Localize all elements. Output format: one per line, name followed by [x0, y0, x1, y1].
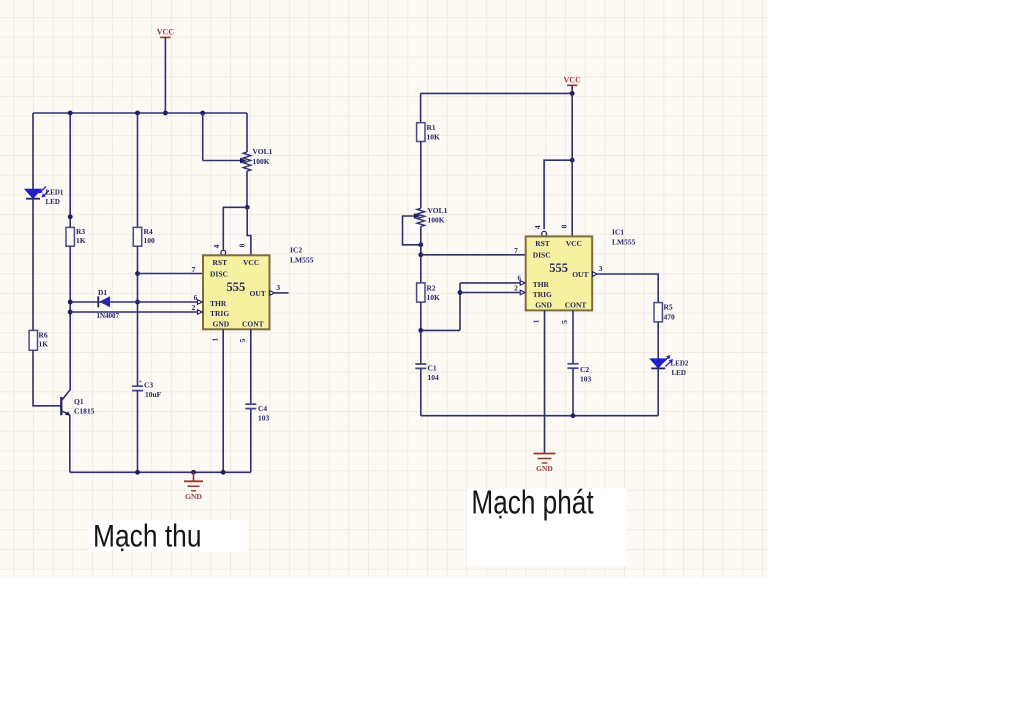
node junction TRIG tee 2 [458, 290, 463, 295]
svg-text:OUT: OUT [572, 270, 588, 279]
wire LED2 to bottom rail corner [657, 368, 659, 416]
wire TRIG/THR riser [459, 283, 461, 331]
capacitor C3 [132, 385, 143, 387]
node junction DISC tee 2 [418, 252, 423, 257]
svg-text:GND: GND [536, 464, 553, 473]
svg-text:10K: 10K [427, 293, 441, 302]
transistor Q1 emitter with arrow [61, 411, 70, 415]
wire C4 to bottom rail corner [250, 409, 252, 473]
pin 6 THR input arrow [198, 300, 203, 305]
LED D LED2 (emitter) [650, 359, 666, 368]
wire TRIG line [70, 311, 197, 313]
pin 2 TRIG input arrow [198, 310, 203, 315]
resistor R4 [133, 227, 141, 246]
wire TRIG line 2 [460, 292, 520, 294]
pin 3 OUT wire IC1 [598, 274, 659, 303]
svg-text:Mạch thu: Mạch thu [93, 518, 202, 554]
wire left branch down to LED1 [32, 113, 34, 189]
wire THR line through D1 [70, 301, 197, 303]
svg-text:LED1: LED1 [46, 189, 64, 197]
pin 3 OUT arrow [270, 291, 275, 296]
node junction DISC tee [135, 271, 140, 276]
wire node to pin 8 [247, 207, 251, 255]
svg-text:VOL1: VOL1 [428, 206, 448, 215]
wire Q1 emitter down to bottom rail [69, 415, 71, 472]
wire VCC stub to top rail [164, 37, 166, 113]
resistor R2 [417, 283, 425, 302]
svg-text:103: 103 [580, 375, 592, 384]
svg-text:VCC: VCC [566, 239, 582, 248]
ground symbol GND (circuit 1) [184, 480, 203, 482]
wire top rail circuit 2 [421, 92, 573, 94]
wire R3 branch from rail [69, 113, 71, 227]
node junction top rail at VCC stub [163, 111, 168, 116]
pin 3 OUT wire [275, 292, 289, 294]
wire C1 to bottom rail 2 [420, 368, 422, 415]
pin 5 CONT wire to C4 [250, 329, 252, 404]
node junction THR tee [135, 300, 140, 305]
svg-text:VCC: VCC [157, 28, 175, 37]
svg-text:C3: C3 [144, 381, 153, 390]
wire GND stub [193, 472, 195, 481]
wire C1 branch [420, 330, 422, 364]
node junction THR line [68, 300, 73, 305]
diode D1 1N4007 [99, 296, 110, 307]
svg-text:R4: R4 [144, 227, 153, 236]
svg-text:470: 470 [664, 313, 676, 322]
svg-text:8: 8 [237, 243, 246, 247]
wire VOL1 bottom to node [246, 171, 248, 207]
svg-text:555: 555 [227, 280, 246, 294]
svg-text:VCC: VCC [564, 76, 582, 85]
node junction wiper return [418, 242, 423, 247]
svg-text:C4: C4 [258, 404, 267, 413]
wire C2 to bottom rail [572, 368, 574, 416]
wire VCC stub 2 [571, 85, 573, 93]
wire top rail circuit 1 [33, 112, 247, 114]
svg-text:3: 3 [276, 283, 280, 292]
svg-text:Mạch phát: Mạch phát [471, 484, 593, 521]
wire R6 to base corner [33, 350, 61, 406]
svg-text:TRIG: TRIG [533, 290, 552, 299]
svg-text:8: 8 [560, 224, 569, 228]
svg-text:5: 5 [560, 320, 569, 324]
node junction top rail at R3 column [68, 111, 73, 116]
svg-text:1: 1 [532, 319, 541, 323]
svg-text:3: 3 [599, 264, 603, 273]
wire R1 to VOL1b [420, 142, 422, 209]
node junction bottom rail at C3 [135, 470, 140, 475]
node junction bottom rail at GND [191, 470, 196, 475]
resistor R3 [66, 227, 74, 246]
pin 6 THR arrow IC1 [520, 281, 525, 286]
svg-text:R5: R5 [664, 303, 673, 312]
svg-text:103: 103 [258, 414, 270, 423]
svg-text:C1: C1 [428, 364, 437, 373]
svg-text:IC2: IC2 [290, 246, 302, 255]
svg-text:4: 4 [533, 225, 542, 229]
svg-text:DISC: DISC [533, 250, 551, 259]
potentiometer VOL1 (circuit 2) zigzag [417, 208, 425, 226]
svg-text:2: 2 [192, 303, 196, 312]
node junction VCC column pin4 tee [570, 158, 575, 163]
pin 1 GND wire IC1 [544, 310, 546, 453]
wire R3 to Q1 collector [69, 246, 71, 389]
pin 5 CONT wire IC1 [572, 310, 574, 363]
svg-text:1N4007: 1N4007 [97, 312, 120, 320]
svg-text:R2: R2 [427, 284, 436, 293]
svg-text:10K: 10K [427, 133, 441, 142]
resistor R1 [417, 123, 425, 142]
wire wiper column down [202, 113, 204, 161]
svg-text:TRIG: TRIG [210, 309, 229, 318]
wire R4 to capacitor C3 [137, 246, 139, 386]
wire TRIG return horizontal [421, 329, 460, 331]
svg-text:VOL1: VOL1 [253, 147, 273, 156]
wire wiper horizontal to VOL1 [203, 160, 241, 162]
wire bottom rail circuit 1 [70, 471, 251, 473]
resistor R6 [29, 330, 37, 350]
svg-text:LED2: LED2 [671, 360, 689, 368]
label white box Mach phat [467, 489, 627, 567]
svg-text:7: 7 [192, 265, 196, 274]
svg-text:+: + [139, 380, 143, 386]
wire node to pin 4 bubble [223, 207, 247, 250]
svg-text:6: 6 [518, 275, 522, 283]
svg-text:CONT: CONT [565, 300, 587, 309]
svg-text:Q1: Q1 [74, 397, 84, 406]
svg-text:R1: R1 [427, 123, 436, 132]
svg-text:100: 100 [144, 236, 156, 245]
wire R4 branch from rail [137, 113, 139, 227]
wire VOL1b to R2 [420, 227, 422, 283]
svg-text:4: 4 [212, 244, 221, 248]
svg-text:R3: R3 [76, 227, 85, 236]
svg-text:C2: C2 [580, 365, 589, 374]
svg-text:555: 555 [549, 261, 568, 275]
svg-text:7: 7 [514, 246, 518, 255]
ground symbol GND (circuit 2) [534, 453, 556, 455]
op-amp U1 IC2 555 body [203, 255, 270, 329]
LED2 emitted light arrows [663, 358, 668, 363]
pin 3 OUT arrow IC1 [593, 272, 598, 277]
svg-text:C1815: C1815 [74, 407, 95, 416]
svg-text:GND: GND [213, 319, 230, 328]
wire LED1 to R6 [32, 198, 34, 330]
wire R2 to bottom node [420, 302, 422, 330]
svg-text:GND: GND [185, 492, 202, 501]
svg-text:THR: THR [210, 299, 227, 308]
svg-text:D1: D1 [98, 288, 107, 297]
svg-text:RST: RST [535, 239, 550, 248]
svg-text:IC1: IC1 [612, 228, 624, 237]
wire DISC line [138, 273, 204, 275]
wire R5 to LED2 [657, 322, 659, 359]
svg-text:OUT: OUT [250, 289, 266, 298]
svg-text:5: 5 [238, 338, 247, 342]
svg-text:LM555: LM555 [612, 238, 636, 247]
svg-text:VCC: VCC [243, 258, 259, 267]
svg-text:104: 104 [428, 373, 440, 382]
capacitor C4 [245, 403, 256, 405]
wire rail to R1 [420, 93, 422, 122]
svg-text:LM555: LM555 [290, 256, 314, 265]
potentiometer VOL1b wiper arrow [414, 213, 421, 218]
svg-text:2: 2 [514, 284, 518, 293]
svg-text:THR: THR [533, 280, 550, 289]
resistor R5 [654, 303, 662, 322]
svg-text:LED: LED [46, 198, 60, 206]
svg-text:100K: 100K [428, 216, 445, 225]
svg-text:100K: 100K [253, 157, 270, 166]
svg-text:LED: LED [672, 369, 686, 377]
node junction pin4/pin8 split [245, 205, 250, 210]
node junction above R3 [68, 214, 73, 219]
svg-text:1K: 1K [39, 340, 49, 349]
wire VOL1b wiper loop [403, 216, 421, 245]
transistor Q1 base bar [60, 397, 62, 415]
potentiometer VOL1 zigzag [243, 152, 251, 171]
svg-text:1K: 1K [76, 236, 86, 245]
node junction top rail at wiper column [200, 111, 205, 116]
node junction top rail 2 at VCC [570, 91, 575, 96]
transistor Q1 collector [61, 388, 70, 401]
svg-text:1: 1 [211, 338, 220, 342]
wire bottom rail circuit 2 [421, 415, 658, 417]
wire C3 to bottom rail [137, 391, 139, 473]
svg-text:RST: RST [213, 258, 228, 267]
op-amp U2 IC1 555 body [526, 236, 593, 310]
svg-text:10uF: 10uF [145, 390, 162, 399]
svg-text:CONT: CONT [242, 319, 264, 328]
LED D LED1 (photodiode receiver) [25, 189, 41, 198]
pin 2 TRIG arrow IC1 [520, 290, 525, 295]
pin 4 inversion bubble [221, 250, 226, 255]
svg-text:GND: GND [535, 300, 552, 309]
svg-text:DISC: DISC [210, 269, 228, 278]
LED1 incident light arrows [41, 187, 46, 191]
wire pin4 link from VCC column [544, 160, 572, 229]
node junction top rail at R4 column [135, 111, 140, 116]
wire pin 8 IC1 [571, 93, 573, 236]
node junction TRIG line [68, 310, 73, 315]
pin 4 inversion bubble IC1 [542, 231, 547, 236]
schematic grid background [0, 0, 768, 578]
node junction bottom rail at pin1 [221, 470, 226, 475]
wire rail corner down to VOL1 [246, 113, 248, 152]
svg-text:6: 6 [194, 294, 198, 302]
svg-text:R6: R6 [39, 331, 48, 340]
capacitor C2 [568, 363, 579, 365]
node junction bottom rail 2 at C2 [571, 413, 576, 418]
capacitor C1 [415, 363, 426, 365]
pin 1 GND wire [222, 329, 224, 472]
wire THR line 2 [460, 282, 520, 284]
label white box Mach thu [88, 520, 248, 552]
wire DISC line 2 [421, 254, 526, 256]
potentiometer VOL1 wiper arrow [240, 158, 247, 163]
node junction R2/C1/TRIG [418, 328, 423, 333]
